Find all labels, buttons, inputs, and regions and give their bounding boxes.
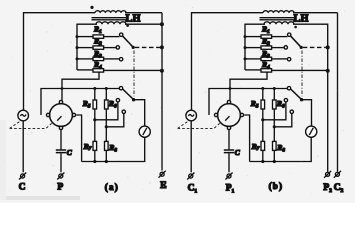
- resistor R3 (a): [93, 57, 104, 60]
- svg-text:(b): (b): [269, 181, 284, 191]
- junction switch-inner-bus (b): [326, 45, 330, 49]
- wire secondary right to bus (a): [125, 23, 162, 25]
- wire R4 bottom jog to converter top (a): [62, 72, 99, 100]
- wire bus to R2 (b): [245, 47, 261, 49]
- terminal C (a): [19, 173, 26, 180]
- contact R1 (b): [288, 33, 291, 36]
- wire outer bus to C2 (b): [337, 13, 339, 172]
- svg-text:LH: LH: [294, 13, 309, 24]
- resistor R6 (a): [105, 100, 109, 109]
- resistor R5 (a): [93, 100, 97, 109]
- junction R5-tap (a): [93, 118, 96, 121]
- wire converter to capacitor (b): [228, 130, 230, 150]
- contact selector top (a): [119, 87, 122, 90]
- wire AC source to bottom terminal (b): [190, 121, 192, 173]
- svg-text:E: E: [160, 181, 166, 191]
- junction secondary-bus (a): [160, 22, 164, 26]
- wire bus to R1 (a): [77, 36, 93, 38]
- mechanical link dash-dot (b): [301, 51, 303, 97]
- junction node-R6 (b): [273, 87, 276, 90]
- galvanometer G (b): [306, 126, 317, 137]
- wire R4 to right bus (b): [272, 69, 327, 71]
- vibrating converter (a): [50, 104, 73, 127]
- converter top terminal (b): [227, 100, 230, 103]
- AC source (b): [186, 110, 197, 121]
- resistor R8 (a): [105, 141, 109, 150]
- terminal C1 (b): [187, 173, 194, 180]
- resistor R7 (a): [93, 141, 97, 150]
- capacitor C (b): [224, 150, 234, 153]
- resistor R5 (b): [261, 100, 265, 109]
- wire divider top node (a): [41, 89, 119, 116]
- wire meter to bottom node (a): [82, 137, 145, 161]
- wire R2 to contact (a): [104, 47, 116, 49]
- terminal P (a): [57, 173, 64, 180]
- converter right terminal (b): [240, 113, 243, 116]
- wire bus to R3 (a): [77, 58, 93, 60]
- terminal C2 (b): [334, 171, 341, 178]
- wire meter to bottom node (b): [250, 137, 312, 161]
- junction R6-tap (b): [273, 125, 276, 128]
- wire R1 to contact (a): [104, 36, 120, 38]
- wire pivot to meter (b): [302, 100, 312, 126]
- terminal P2 (b): [324, 171, 331, 178]
- wire bus to R3 (b): [245, 58, 261, 60]
- svg-text:LH: LH: [126, 13, 141, 24]
- wire pivot to right bus dashed (a): [135, 46, 160, 48]
- junction R8-bottom (a): [105, 160, 108, 163]
- polarity dot secondary (b): [294, 26, 297, 29]
- wire R3 to contact (b): [272, 58, 288, 60]
- wire bus corner to R4 (a): [77, 69, 93, 71]
- resistor R6 (b): [273, 100, 277, 109]
- resistor R8 (b): [273, 141, 277, 150]
- junction node-R6 (a): [105, 87, 108, 90]
- contact selector top (b): [287, 87, 290, 90]
- junction jog-node cross (b): [229, 87, 232, 90]
- junction node-R5 (a): [93, 87, 96, 90]
- switch blade lower selector (b): [291, 89, 302, 100]
- junction jog-node cross (a): [61, 87, 64, 90]
- inductor LH primary winding (a): [95, 11, 126, 13]
- inductor LH primary winding (b): [263, 11, 294, 13]
- junction bus-R3 (a): [76, 57, 79, 60]
- contact R5 tap (a): [116, 99, 119, 102]
- resistor R7 (b): [261, 141, 265, 150]
- converter left terminal (a): [46, 113, 49, 116]
- junction node-R5 (b): [261, 87, 264, 90]
- resistor R2 (b): [261, 46, 272, 49]
- capacitor C (a): [56, 150, 66, 153]
- terminal E (a): [159, 171, 166, 178]
- wire R6 tap (a): [106, 114, 124, 127]
- wire top primary to right corner (b): [293, 12, 338, 14]
- converter top terminal (a): [59, 100, 62, 103]
- wire R6 branch (b): [273, 89, 275, 162]
- resistor R3 (b): [261, 57, 272, 60]
- mechanical coupling dashed link (b): [178, 121, 221, 128]
- wire bus corner to R4 (b): [245, 69, 261, 71]
- wire divider top node (b): [209, 89, 287, 116]
- wire top primary to right corner (a): [125, 12, 162, 14]
- wire AC source to bottom terminal (a): [22, 121, 24, 173]
- junction R6-tap (a): [105, 125, 108, 128]
- junction R7-bottom (b): [261, 160, 264, 163]
- junction R7-bottom (a): [93, 160, 96, 163]
- wire capacitor to terminal (b): [228, 153, 230, 172]
- svg-text:C: C: [19, 183, 26, 193]
- junction R4-bus (a): [160, 69, 164, 73]
- contact R3 (a): [119, 58, 122, 61]
- wire R4 to right bus (a): [104, 69, 161, 71]
- converter left terminal (b): [214, 113, 217, 116]
- wire bus to R1 (b): [245, 36, 261, 38]
- resistor R1 (a): [93, 35, 104, 38]
- wire right bus (a): [161, 13, 163, 171]
- contact R1 (a): [120, 33, 123, 36]
- junction R5-tap (b): [261, 118, 264, 121]
- terminal P1 (b): [225, 173, 232, 180]
- wire top-left corner to primary (a): [24, 13, 96, 111]
- wire R3 to contact (a): [104, 58, 120, 60]
- resistor R4 (b): [261, 69, 272, 72]
- mechanical coupling dashed link (a): [10, 121, 53, 128]
- wire top-left corner to primary (b): [192, 13, 264, 111]
- wire R5 tap (b): [263, 102, 286, 120]
- junction bus-R3 (b): [244, 57, 247, 60]
- wire R5 branch (b): [262, 89, 264, 162]
- inductor LH secondary winding (a): [96, 22, 126, 24]
- wire bottom node to converter right (a): [76, 115, 81, 162]
- pivot lower selector (b): [300, 98, 303, 101]
- svg-text:(a): (a): [105, 182, 119, 192]
- switch blade upper selector (a): [122, 36, 133, 48]
- vibrating converter (b): [218, 104, 241, 127]
- contact R2 (b): [284, 46, 287, 49]
- contact R3 (b): [287, 58, 290, 61]
- resistor R2 (a): [93, 46, 104, 49]
- wire pivot to right bus dashed (b): [303, 46, 326, 48]
- wire secondary left to resistor bus (a): [77, 24, 97, 70]
- wire R5 branch (a): [94, 89, 96, 162]
- junction switch-bus (a): [160, 45, 164, 49]
- junction bus-R2 (a): [76, 46, 79, 49]
- contact R2 (a): [116, 46, 119, 49]
- svg-text:P: P: [57, 183, 63, 193]
- mechanical link dash-dot (a): [133, 51, 135, 97]
- pivot lower selector (a): [132, 98, 135, 101]
- switch blade lower selector (a): [123, 89, 134, 100]
- wire R6 branch (a): [105, 89, 107, 162]
- inductor LH core (b): [260, 18, 297, 20]
- AC source (a): [18, 110, 29, 121]
- pivot upper selector (b): [300, 46, 303, 49]
- switch blade upper selector (b): [290, 36, 301, 48]
- junction bus-R2 (b): [244, 46, 247, 49]
- wire R5 tap (a): [95, 102, 118, 120]
- polarity dot secondary (a): [126, 24, 129, 27]
- polarity asterisk primary (a): [90, 6, 93, 9]
- wire R6 tap (b): [274, 114, 292, 127]
- converter bottom terminal (b): [227, 126, 230, 129]
- galvanometer G (a): [139, 126, 150, 137]
- wire R1 to contact (b): [272, 36, 288, 38]
- wire converter to capacitor (a): [60, 130, 62, 150]
- inductor LH core (a): [92, 18, 129, 20]
- wire bus to R2 (a): [77, 47, 93, 49]
- contact R5 tap (b): [284, 99, 287, 102]
- wire R4 bottom jog to converter top (b): [230, 72, 267, 100]
- resistor R4 (a): [93, 69, 104, 72]
- pivot upper selector (a): [132, 46, 135, 49]
- converter bottom terminal (a): [59, 126, 62, 129]
- contact R6 tap (b): [290, 110, 293, 113]
- junction bus-R1 (a): [76, 35, 79, 38]
- contact R6 tap (a): [122, 110, 125, 113]
- inductor LH secondary winding (b): [264, 22, 294, 24]
- wire pivot to meter (a): [134, 100, 145, 126]
- junction R8-bottom (b): [273, 160, 276, 163]
- converter right terminal (a): [72, 113, 75, 116]
- junction bus-R1 (b): [244, 35, 247, 38]
- resistor R1 (b): [261, 35, 272, 38]
- wire secondary left to resistor bus (b): [245, 24, 265, 70]
- paper noise: [3, 5, 345, 199]
- wire capacitor to terminal (a): [60, 153, 62, 172]
- wire R2 to contact (b): [272, 47, 284, 49]
- wire bottom node to converter right (b): [244, 115, 249, 162]
- wire inner bus secondary to P2 (b): [293, 24, 328, 171]
- junction R4-inner-bus (b): [326, 69, 330, 73]
